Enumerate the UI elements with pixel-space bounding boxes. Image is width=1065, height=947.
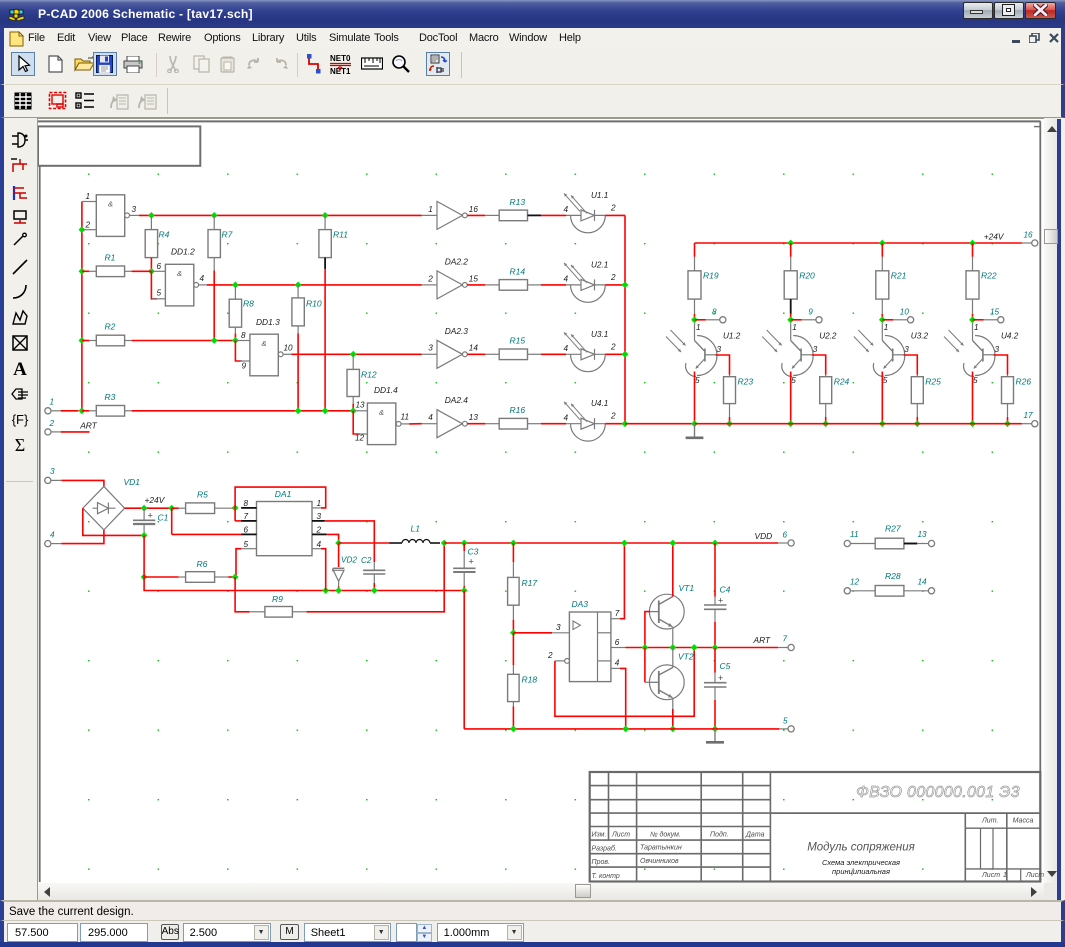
svg-text:R16: R16 [510, 405, 526, 415]
ground right section [694, 424, 696, 438]
node row1 R4 [148, 212, 155, 219]
wire emitter U3.2 [881, 372, 883, 424]
pin 8 DD1.3 [235, 340, 250, 342]
svg-text:R8: R8 [243, 299, 254, 309]
resistor R14 [499, 280, 527, 291]
wire gnd drop to bottom bus [463, 591, 465, 729]
pin 1 DA1 [312, 507, 321, 509]
node ART C4 [712, 644, 719, 651]
node gnd pin4 [322, 587, 329, 594]
svg-text:2: 2 [427, 274, 433, 283]
svg-text:1: 1 [428, 205, 433, 214]
svg-text:5: 5 [791, 376, 796, 385]
wire pin8 to pin7 [234, 508, 236, 521]
wire R22 bottom stub [972, 299, 974, 314]
gate DD1.4 [367, 403, 395, 445]
node ART feedback [691, 644, 698, 651]
svg-text:4: 4 [317, 540, 322, 549]
wire to LED [541, 423, 566, 425]
svg-text:U4.1: U4.1 [591, 399, 608, 408]
pin 9 DD1.3 [240, 360, 250, 362]
window title bar [0, 0, 1065, 28]
status fields [0, 920, 1065, 942]
svg-text:C4: C4 [720, 584, 731, 594]
pin 2 DA3 [565, 659, 570, 664]
wire VD2 drop [338, 543, 340, 567]
pin 7 DA3 [611, 618, 620, 620]
svg-text:Схема электрическая: Схема электрическая [822, 858, 900, 867]
wire VT1 base [645, 612, 650, 648]
resistor R1 [82, 270, 89, 272]
svg-text:Σ: Σ [15, 435, 25, 454]
svg-text:3: 3 [717, 345, 722, 354]
pin 6 DD1.2 [151, 270, 165, 272]
svg-text:U1.1: U1.1 [591, 191, 608, 200]
node R24 rail [822, 420, 829, 427]
svg-text:L1: L1 [411, 524, 421, 534]
svg-text:16: 16 [1024, 230, 1034, 239]
wire emitter U4.2 [972, 372, 974, 424]
node ART emitters [669, 644, 676, 651]
wire pin3 DA3 [513, 632, 552, 634]
node gnd C2 [371, 587, 378, 594]
port 10 [908, 317, 914, 323]
inductor L1 [389, 542, 402, 544]
svg-text:R27: R27 [885, 524, 901, 534]
port 1 [45, 408, 51, 414]
pin 4 DD1.2 output [199, 284, 207, 286]
wire R21 bottom stub [881, 299, 883, 314]
schematic canvas [38, 118, 1044, 883]
svg-text:2: 2 [610, 273, 616, 282]
svg-text:+24V: +24V [984, 232, 1005, 242]
svg-text:№ докум.: № докум. [650, 831, 681, 839]
wire LED right [605, 423, 625, 425]
svg-text:16: 16 [469, 205, 479, 214]
svg-text:R10: R10 [306, 299, 322, 309]
svg-text:C2: C2 [361, 556, 372, 565]
svg-text:6: 6 [615, 638, 620, 647]
wire pin5 node to R9 [235, 577, 250, 612]
node bus pin4 [622, 726, 629, 733]
svg-text:R13: R13 [510, 197, 526, 207]
svg-text:Лит.: Лит. [981, 818, 998, 825]
port 13 [928, 540, 934, 546]
node DA1 pin8 [232, 505, 239, 512]
pin 3 DD1.1 output [130, 214, 139, 216]
svg-text:7: 7 [244, 512, 249, 521]
node R3/R10 [295, 407, 302, 414]
svg-text:C3: C3 [468, 546, 479, 556]
svg-text:R14: R14 [510, 266, 526, 276]
node row2 R8 [232, 282, 239, 289]
svg-text:6: 6 [244, 526, 249, 535]
wire pin7 to VDD [620, 543, 624, 619]
wire DD1.4 out [409, 423, 422, 425]
resistor R3 [82, 410, 89, 412]
port 11 [844, 540, 850, 546]
wire port3 to bridge [61, 480, 104, 486]
svg-text:R11: R11 [333, 230, 348, 240]
wire to LED [541, 284, 566, 286]
svg-text:5: 5 [157, 289, 162, 298]
svg-text:5: 5 [244, 540, 249, 549]
svg-text:R6: R6 [197, 559, 208, 569]
resistor R10 [297, 285, 299, 298]
optocoupler LED U4.1 [571, 424, 606, 441]
node C3 top [461, 540, 468, 547]
svg-text:2: 2 [316, 526, 322, 535]
node LED bus U2.1 [622, 282, 629, 289]
svg-text:R28: R28 [885, 571, 901, 581]
svg-text:9: 9 [242, 362, 247, 371]
svg-text:2: 2 [49, 419, 55, 428]
svg-text:8: 8 [244, 499, 249, 508]
capacitor C2 [363, 569, 374, 571]
resistor R27 [875, 538, 904, 549]
svg-text:1: 1 [974, 323, 979, 332]
sheet right border [1039, 121, 1041, 882]
node R25 rail [914, 420, 921, 427]
svg-text:15: 15 [990, 307, 1000, 316]
svg-text:VT2: VT2 [678, 651, 694, 661]
svg-text:R25: R25 [925, 377, 941, 387]
node R3/R11 [322, 407, 329, 414]
wire R19 bottom stub [694, 299, 696, 314]
wire row2 net [207, 284, 422, 286]
svg-text:U4.2: U4.2 [1001, 331, 1019, 340]
svg-text:1: 1 [50, 398, 55, 407]
wire VT2 emitter [672, 698, 674, 710]
wire pin2 to node [327, 534, 339, 543]
wire buffer out [467, 284, 485, 286]
window buttons [963, 2, 993, 19]
port 15 [998, 317, 1004, 323]
resistor R12 [352, 354, 354, 369]
node emitter rail U3.2 [879, 420, 886, 427]
svg-text:Подп.: Подп. [710, 831, 729, 839]
wire port stub 10 [882, 319, 893, 321]
wire R15 out stub [528, 353, 542, 355]
node R17 top [510, 540, 517, 547]
wire port stub 15 [973, 319, 984, 321]
svg-text:ART: ART [79, 420, 97, 430]
node R3 left [79, 407, 86, 414]
zener diode VD2 [333, 567, 344, 569]
wire R16 out stub [528, 423, 542, 425]
gate DD1.1 [96, 195, 124, 237]
svg-text:Разраб.: Разраб. [592, 845, 617, 853]
port 16 [1032, 240, 1038, 246]
svg-text:&: & [108, 200, 113, 209]
status message bar [0, 900, 1065, 920]
svg-text:3: 3 [904, 345, 909, 354]
pin 4 DA3 [611, 667, 620, 669]
port 12 [844, 588, 850, 594]
node row3 R12 [350, 351, 357, 358]
svg-text:2: 2 [610, 342, 616, 351]
pin 2 DA1 [312, 533, 327, 535]
port 7 ART [788, 644, 794, 650]
svg-text:3: 3 [132, 205, 137, 214]
svg-text:R9: R9 [272, 594, 283, 604]
transistor VT2 [649, 665, 684, 700]
node C1 top [141, 505, 148, 512]
node emitter rail U1.2 [691, 420, 698, 427]
svg-text:ФВЗО 000000.001 Э3: ФВЗО 000000.001 Э3 [856, 784, 1020, 801]
wire port stub 8 [695, 319, 706, 321]
svg-text:Пров.: Пров. [592, 859, 611, 866]
ic DA1 [257, 502, 313, 556]
wire VDD rail [444, 542, 778, 544]
svg-text:13: 13 [469, 413, 479, 422]
svg-text:R7: R7 [222, 230, 233, 240]
pin 13 DD1.4 [353, 410, 367, 412]
node R17/R18 [510, 629, 517, 636]
svg-text:R2: R2 [105, 322, 116, 332]
svg-text:14: 14 [469, 344, 479, 353]
wire emitter U1.2 [694, 372, 696, 424]
svg-text:DA2.4: DA2.4 [445, 395, 469, 405]
wire to pin12 DD1.4 [353, 411, 360, 434]
svg-text:8: 8 [241, 331, 246, 340]
pin 5 DD1.2 [152, 298, 165, 300]
sheet left border [39, 166, 41, 882]
wire collector stub U4.2 [994, 355, 1008, 375]
resistor R26 [1007, 375, 1009, 377]
svg-text:2: 2 [85, 220, 91, 229]
buffer DA2.3 [422, 353, 437, 355]
phototransistor U1.2 [694, 323, 696, 340]
svg-text:Лист: Лист [981, 872, 1000, 879]
node row1 R7 [211, 212, 218, 219]
wire row1 net [139, 214, 422, 216]
capacitor C3 [463, 543, 465, 551]
node base U1.2 [691, 316, 698, 323]
svg-text:R3: R3 [105, 392, 116, 402]
node R23 rail [726, 420, 733, 427]
resistor R28 [875, 586, 904, 597]
svg-text:8: 8 [712, 307, 717, 316]
port 17 [1032, 421, 1038, 427]
ground bottom [714, 729, 716, 742]
node R1 left [79, 268, 86, 275]
wire R13 out stub [528, 214, 542, 216]
vertical scrollbar [1044, 119, 1061, 883]
resistor R20 [784, 271, 797, 299]
gate DD1.3 [250, 334, 278, 376]
svg-text:R4: R4 [159, 230, 170, 240]
wire collector stub U1.2 [716, 355, 730, 375]
left tool palette [0, 118, 38, 883]
svg-text:4: 4 [564, 344, 569, 353]
svg-text:+24V: +24V [145, 495, 166, 505]
svg-text:17: 17 [1024, 411, 1034, 420]
node R2/R8 pin8 [232, 337, 239, 344]
sheet right notch line [1034, 126, 1040, 128]
resistor R25 [916, 375, 918, 377]
node base U2.2 [787, 316, 794, 323]
capacitor C4 [714, 543, 716, 597]
svg-text:Листов: Листов [1025, 872, 1044, 879]
app icon [7, 5, 26, 24]
wire port4 to bridge [61, 530, 104, 544]
svg-text:DD1.3: DD1.3 [256, 317, 280, 327]
svg-text:+: + [718, 596, 723, 606]
wire port 17 stub [1022, 423, 1032, 425]
svg-text:7: 7 [615, 609, 620, 618]
svg-text:VD1: VD1 [124, 477, 141, 487]
optocoupler LED U2.1 [571, 285, 606, 302]
capacitor C1 [143, 508, 145, 520]
svg-text:1: 1 [696, 323, 701, 332]
port 9 [816, 317, 822, 323]
resistor R13 [499, 210, 527, 221]
svg-text:R24: R24 [834, 377, 850, 387]
wire bottom bus [464, 728, 779, 730]
node C3 bottom [461, 587, 468, 594]
node row2 R10 [295, 282, 302, 289]
pin 3 DA1 [312, 520, 325, 522]
sheet corner box [38, 126, 200, 165]
node gnd VD2 [335, 587, 342, 594]
svg-text:Модуль сопряжения: Модуль сопряжения [807, 842, 915, 854]
node row1 R11 [322, 212, 329, 219]
wire LED right [605, 353, 625, 355]
svg-text:R17: R17 [522, 578, 538, 588]
node bus C5 [712, 726, 719, 733]
node LED bus U3.1 [622, 351, 629, 358]
node R6 right pin5 [232, 574, 239, 581]
pin 8 DA1 [241, 507, 256, 509]
svg-text:1: 1 [1003, 872, 1007, 879]
pin 10 DD1.3 output [283, 353, 291, 355]
grid dots [38, 119, 1041, 883]
svg-text:12: 12 [850, 577, 860, 586]
node bus R18 [510, 726, 517, 733]
wire to LED [541, 214, 566, 216]
buffer DA2.2 [422, 284, 437, 286]
toolbar row 1 [0, 49, 1065, 85]
svg-text:Масса: Масса [1013, 818, 1034, 825]
svg-text:ART: ART [753, 635, 771, 645]
svg-text:R15: R15 [510, 336, 526, 346]
node C1 bottom [141, 532, 148, 539]
svg-text:R22: R22 [981, 271, 997, 281]
wire pin4 to bus [620, 668, 626, 729]
pin 2 DD1.1 [82, 229, 96, 231]
node base U3.2 [879, 316, 886, 323]
wire rail drop R21 [881, 243, 883, 257]
node R4 bottom [148, 268, 155, 275]
node pin2 DD1.1 [79, 226, 86, 233]
wire R14 out stub [528, 284, 542, 286]
resistor R2 [82, 340, 89, 342]
resistor R18 [512, 633, 514, 665]
resistor R24 [825, 375, 827, 377]
title block grid [590, 772, 1041, 882]
svg-text:5: 5 [695, 376, 700, 385]
svg-text:4: 4 [564, 414, 569, 423]
node R2/R7 [211, 337, 218, 344]
port 14 [928, 588, 934, 594]
wire left vertical bus [81, 202, 83, 411]
wire rail drop R20 [790, 243, 792, 257]
buffer DA2.4 [422, 423, 437, 425]
svg-text:R12: R12 [361, 370, 377, 380]
svg-text:R1: R1 [105, 252, 116, 262]
phototransistor U3.2 [881, 323, 883, 340]
svg-text:13: 13 [918, 530, 928, 539]
svg-text:R5: R5 [197, 490, 208, 500]
svg-text:Изм.: Изм. [592, 832, 607, 839]
resistor R19 [688, 271, 701, 299]
svg-text:R19: R19 [703, 271, 719, 281]
svg-text:R26: R26 [1016, 377, 1032, 387]
node rail R21 [879, 240, 886, 247]
svg-text:1: 1 [792, 323, 797, 332]
node rail R20 [787, 240, 794, 247]
phototransistor U2.2 [790, 323, 792, 340]
buffer DA2.1 [422, 214, 437, 216]
svg-text:R23: R23 [738, 377, 754, 387]
node bus VT2 [669, 726, 676, 733]
MDI window buttons [1012, 40, 1020, 43]
wire gnd rail from R6row [144, 577, 464, 591]
wire LED right bus [624, 215, 626, 423]
node plus24 branch [168, 505, 175, 512]
node emitter rail U4.2 [969, 420, 976, 427]
transistor VT1 [649, 594, 684, 629]
svg-text:4: 4 [564, 275, 569, 284]
resistor R5 [172, 507, 179, 509]
resistor R4 [150, 215, 152, 229]
wire +24V rail [695, 242, 1022, 244]
pin 6 DA3 [611, 647, 626, 649]
resistor R22 [966, 271, 979, 299]
svg-text:принципиальная: принципиальная [832, 867, 890, 876]
wire R27 stub [904, 543, 917, 545]
wire to pin9 DD1.3 [235, 341, 242, 362]
svg-text:3: 3 [50, 467, 55, 476]
capacitor C5 [714, 648, 716, 673]
svg-text:2: 2 [547, 651, 553, 660]
svg-text:13: 13 [356, 401, 366, 410]
svg-text:3: 3 [317, 512, 322, 521]
resistor R21 [876, 271, 889, 299]
svg-text:5: 5 [783, 716, 788, 725]
svg-text:4: 4 [615, 659, 620, 668]
svg-text:6: 6 [783, 530, 788, 539]
wire R28 stub [904, 590, 929, 592]
port 2 [45, 429, 51, 435]
wire port stub 9 [791, 319, 802, 321]
svg-text:11: 11 [401, 412, 410, 421]
wire VDD port stub [778, 542, 788, 544]
wire pin2 feedback [555, 648, 694, 717]
horizontal scrollbar [38, 883, 1044, 900]
resistor R16 [499, 418, 527, 429]
wire to pin5 DD1.2 [151, 271, 157, 299]
wire pin5 down [236, 549, 241, 577]
wire LED bus to rail [625, 423, 695, 425]
wire node to L1 [339, 542, 390, 544]
wire pin3 to C2 [325, 521, 375, 562]
resistor R15 [499, 349, 527, 360]
pin 12 DD1.4 [358, 433, 367, 435]
port 6 VDD [788, 540, 794, 546]
svg-text:4: 4 [564, 205, 569, 214]
